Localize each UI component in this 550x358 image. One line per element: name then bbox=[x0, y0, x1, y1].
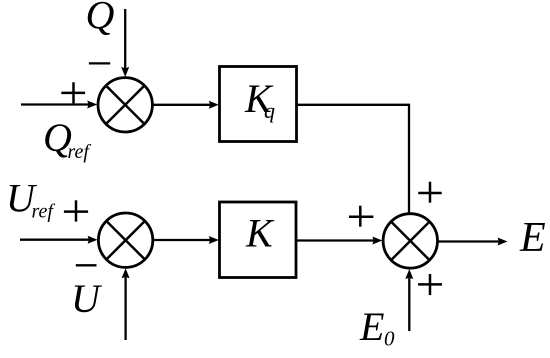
wire Kq output to S3 top (elbow) bbox=[297, 105, 410, 214]
wire K to S3 left bbox=[296, 237, 382, 245]
summing junction S3 (output) bbox=[383, 214, 437, 268]
svg-text:E: E bbox=[519, 215, 546, 261]
wire Q input (vertical into S1 top) bbox=[121, 9, 129, 77]
wire Uref input (horizontal into S2 left) bbox=[20, 236, 98, 244]
wire Qref input (horizontal into S1 left) bbox=[21, 101, 97, 109]
svg-text:ref: ref bbox=[68, 141, 92, 163]
svg-text:q: q bbox=[264, 98, 275, 123]
wire E output (S3 right) bbox=[438, 238, 508, 246]
sign plus (Kq branch into S3) bbox=[418, 182, 442, 203]
svg-text:E: E bbox=[359, 304, 384, 349]
sign plus (Uref input) bbox=[64, 200, 88, 221]
sign plus (Qref input) bbox=[61, 82, 85, 103]
svg-text:0: 0 bbox=[384, 327, 395, 351]
summing junction S1 (reactive channel) bbox=[98, 78, 152, 132]
label Uref bbox=[6, 176, 55, 223]
sign minus (Q input) bbox=[89, 62, 110, 64]
svg-text:ref: ref bbox=[32, 201, 56, 223]
sign plus (K branch into S3) bbox=[349, 206, 373, 227]
wire U input (vertical into S2 bottom) bbox=[122, 268, 130, 340]
wire E0 input (vertical into S3 bottom) bbox=[405, 269, 413, 331]
summing junction S2 (voltage channel) bbox=[98, 213, 152, 267]
label E0 bbox=[359, 304, 395, 351]
svg-text:K: K bbox=[245, 211, 275, 256]
svg-text:U: U bbox=[71, 276, 103, 321]
sign minus (U input) bbox=[76, 264, 97, 266]
block Kq bbox=[220, 67, 297, 142]
wire S2 to K bbox=[153, 236, 219, 244]
block K bbox=[220, 202, 297, 278]
wire S1 to Kq bbox=[153, 101, 219, 109]
svg-text:Q: Q bbox=[86, 0, 115, 38]
label Qref bbox=[43, 115, 91, 163]
sign plus (E0 branch into S3) bbox=[418, 274, 442, 295]
